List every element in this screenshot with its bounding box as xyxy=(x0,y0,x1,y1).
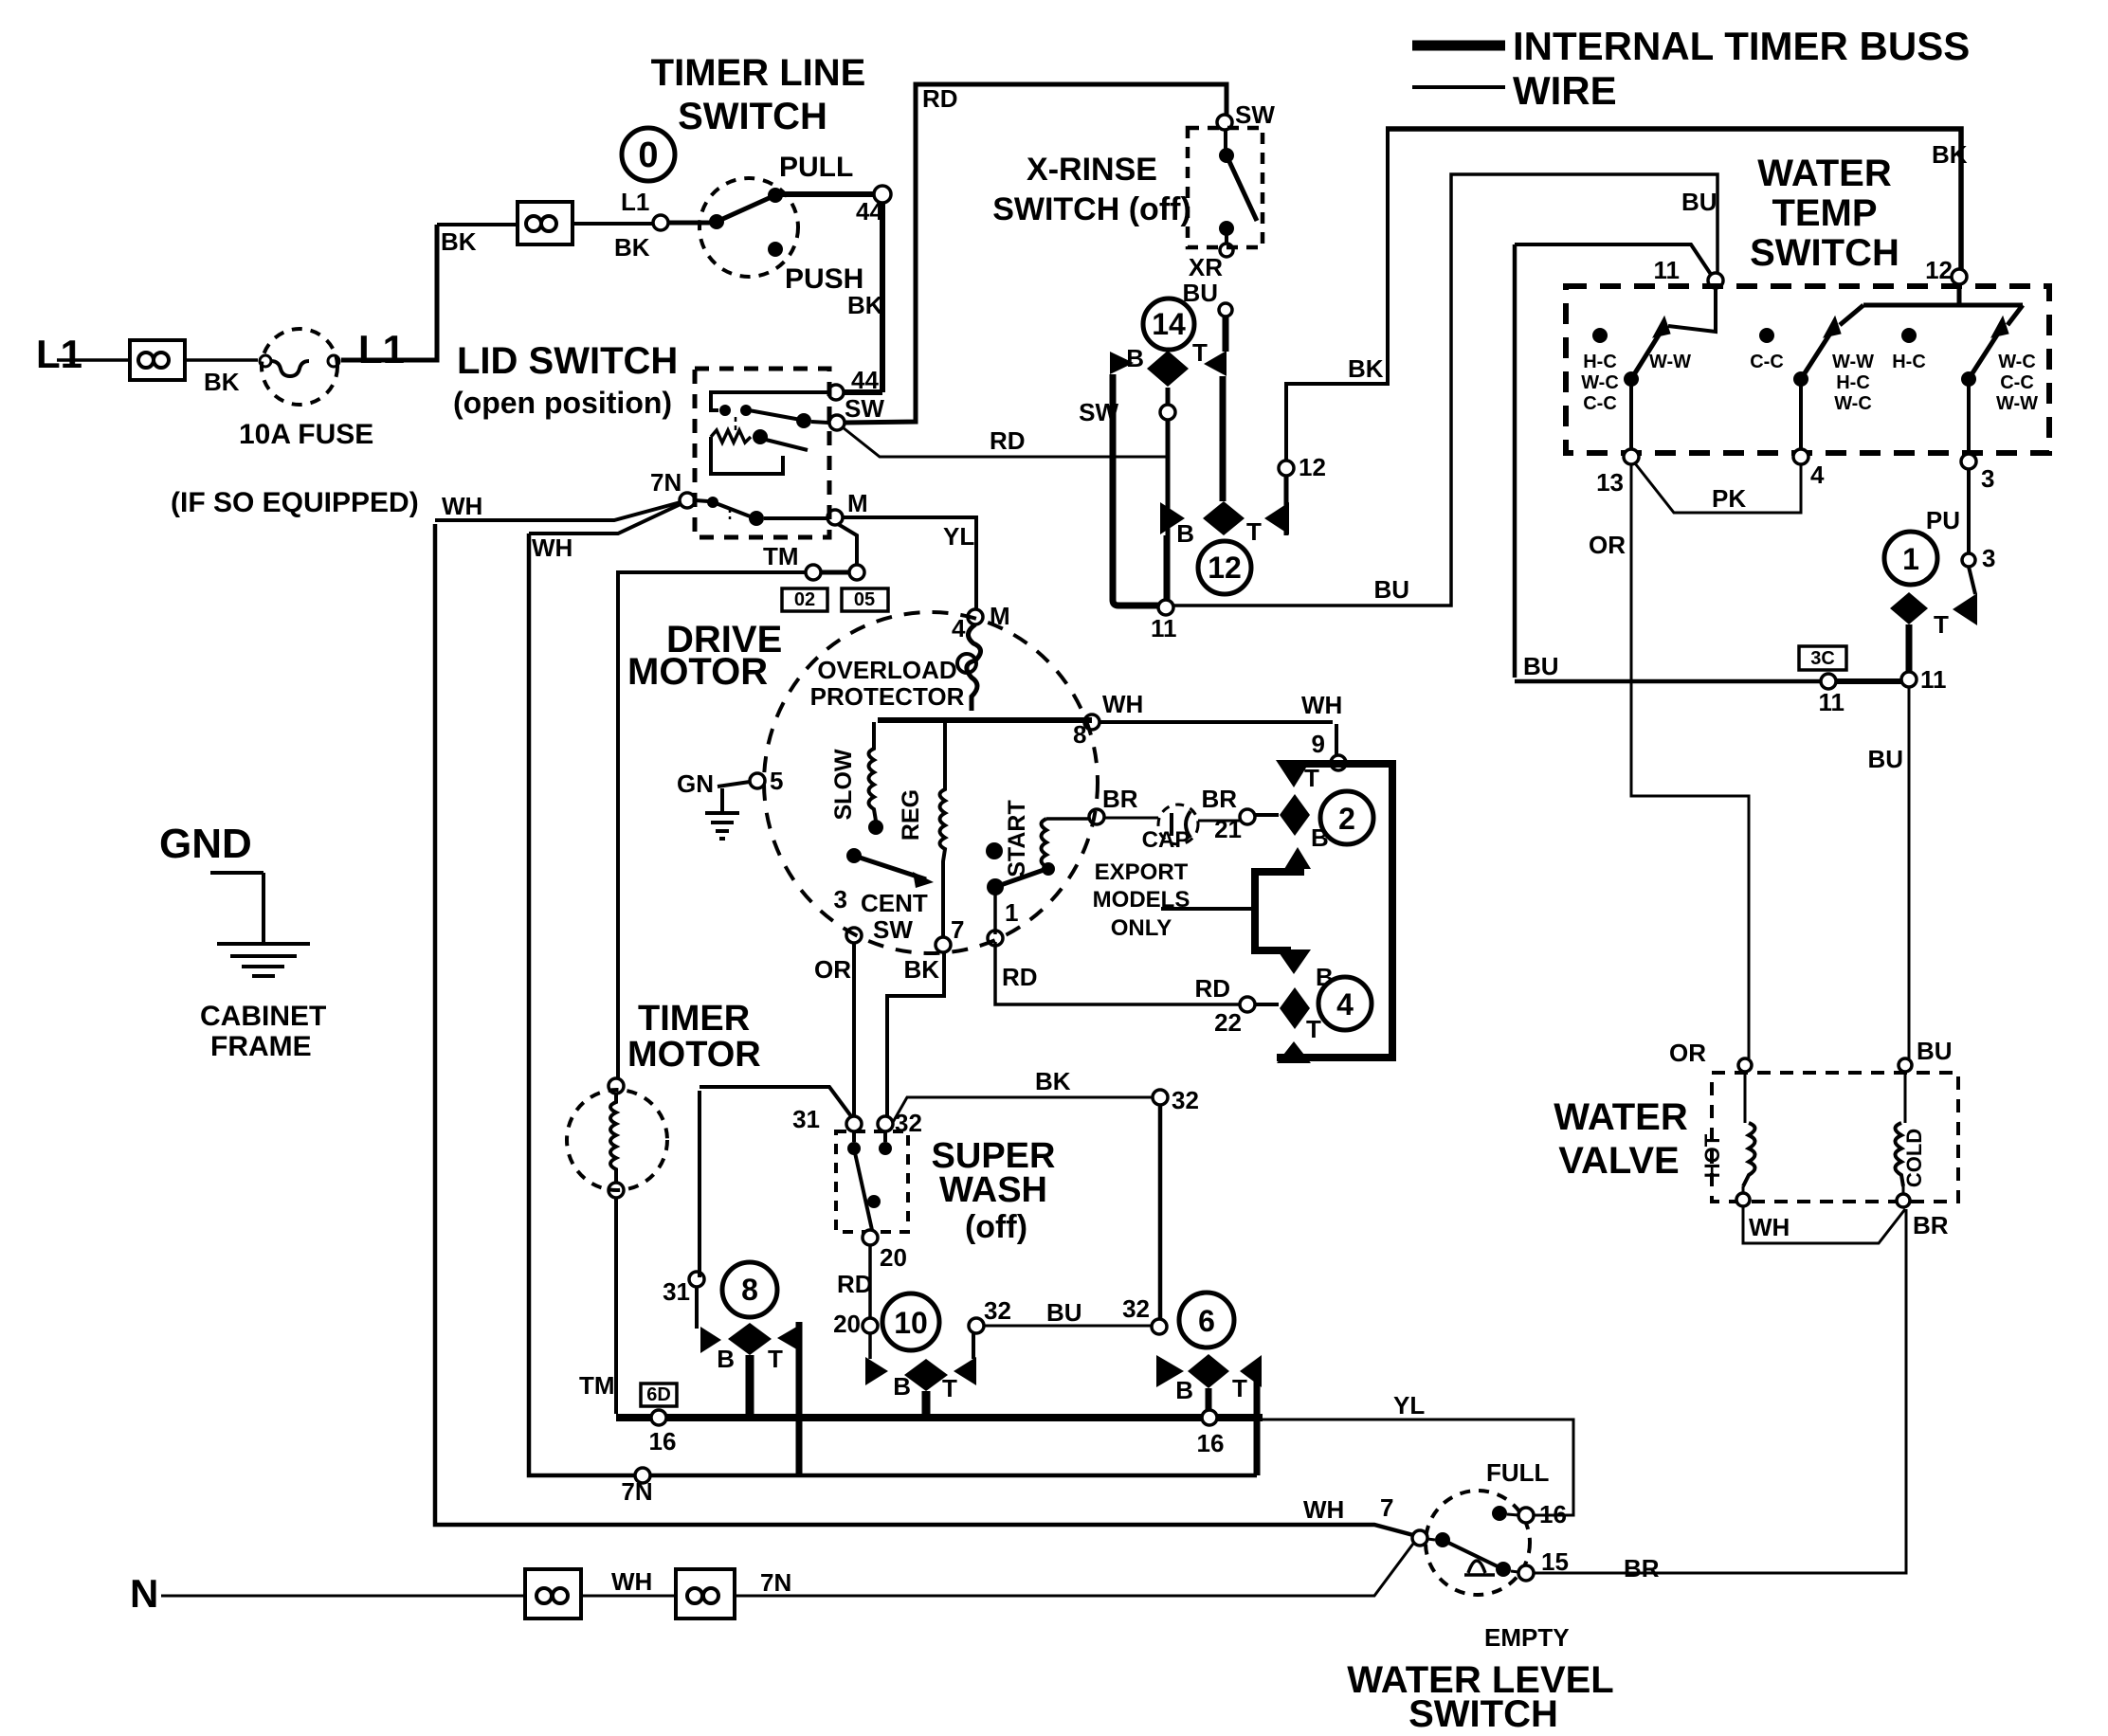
svg-text:(open position): (open position) xyxy=(453,386,672,420)
svg-text:RD: RD xyxy=(1002,963,1038,991)
svg-text:SW: SW xyxy=(873,915,913,944)
svg-text:C-C: C-C xyxy=(1583,393,1617,414)
svg-text:WH: WH xyxy=(1301,691,1342,719)
svg-text:YL: YL xyxy=(1393,1391,1425,1420)
svg-text:TIMER LINE: TIMER LINE xyxy=(651,52,866,94)
svg-text:12: 12 xyxy=(1208,551,1242,585)
svg-text:7N: 7N xyxy=(621,1477,652,1506)
svg-text:4: 4 xyxy=(952,614,966,642)
svg-text:WH: WH xyxy=(1749,1213,1790,1241)
svg-text:YL: YL xyxy=(943,522,974,551)
svg-text:14: 14 xyxy=(1152,307,1186,341)
svg-text:B: B xyxy=(893,1372,911,1401)
svg-text:BR: BR xyxy=(1201,785,1237,813)
svg-text:20: 20 xyxy=(880,1243,907,1272)
svg-text:SWITCH: SWITCH xyxy=(1750,232,1899,274)
svg-text:0: 0 xyxy=(638,136,658,175)
svg-text:XR: XR xyxy=(1189,253,1223,281)
svg-text:W-C: W-C xyxy=(1581,372,1619,393)
svg-text:1: 1 xyxy=(1005,898,1018,927)
svg-text:W-W: W-W xyxy=(1832,352,1874,372)
svg-text:3: 3 xyxy=(1981,464,1994,493)
svg-text:B: B xyxy=(1316,963,1334,991)
svg-text:BK: BK xyxy=(903,955,939,984)
svg-text:BK: BK xyxy=(204,368,240,396)
svg-text:EMPTY: EMPTY xyxy=(1484,1623,1570,1652)
svg-text:2: 2 xyxy=(1338,802,1355,836)
svg-text:L1: L1 xyxy=(36,332,82,376)
svg-text:MODELS: MODELS xyxy=(1093,887,1190,913)
svg-text:1: 1 xyxy=(1902,542,1919,576)
svg-text:START: START xyxy=(1004,800,1030,877)
svg-text:BU: BU xyxy=(1681,188,1717,216)
svg-text:T: T xyxy=(1232,1374,1247,1402)
svg-text:RD: RD xyxy=(922,84,958,113)
svg-text:31: 31 xyxy=(663,1277,690,1306)
svg-text:L1: L1 xyxy=(621,188,649,216)
svg-text:10: 10 xyxy=(894,1306,928,1340)
svg-text:CENT: CENT xyxy=(861,889,928,917)
svg-text:X-RINSE: X-RINSE xyxy=(1027,152,1157,188)
svg-text:3C: 3C xyxy=(1810,648,1835,669)
svg-text:C-C: C-C xyxy=(1750,352,1784,372)
svg-text:BK: BK xyxy=(847,291,883,319)
svg-text:CAP: CAP xyxy=(1142,827,1190,853)
svg-text:M: M xyxy=(847,489,868,517)
svg-text:16: 16 xyxy=(1197,1429,1225,1457)
svg-text:W-C: W-C xyxy=(1998,352,2036,372)
svg-text:M: M xyxy=(990,602,1010,630)
svg-text:SW: SW xyxy=(845,394,884,423)
svg-text:6: 6 xyxy=(1198,1304,1215,1338)
svg-text:T: T xyxy=(1192,338,1208,367)
svg-text:WH: WH xyxy=(532,533,572,562)
svg-text:11: 11 xyxy=(1819,688,1845,716)
svg-text:4: 4 xyxy=(1810,461,1825,489)
svg-text:BK: BK xyxy=(614,233,650,262)
svg-text:5: 5 xyxy=(770,767,783,795)
svg-text:FULL: FULL xyxy=(1486,1458,1550,1487)
svg-text:OR: OR xyxy=(814,955,851,984)
svg-text:T: T xyxy=(1304,764,1319,792)
svg-text:8: 8 xyxy=(741,1273,758,1307)
svg-text:7N: 7N xyxy=(760,1568,791,1597)
svg-text:12: 12 xyxy=(1925,256,1953,284)
svg-text:OR: OR xyxy=(1589,531,1626,559)
svg-text:FRAME: FRAME xyxy=(210,1031,312,1062)
svg-text:BU: BU xyxy=(1373,575,1409,604)
svg-text:VALVE: VALVE xyxy=(1558,1140,1679,1182)
svg-text:REG: REG xyxy=(898,789,924,841)
svg-text:44: 44 xyxy=(856,197,883,226)
svg-text:PU: PU xyxy=(1926,506,1960,534)
svg-text:7: 7 xyxy=(951,915,964,944)
svg-text:TM: TM xyxy=(763,542,799,570)
svg-text:B: B xyxy=(1175,1376,1193,1404)
svg-text:BR: BR xyxy=(1913,1211,1949,1239)
svg-text:32: 32 xyxy=(984,1296,1011,1325)
svg-text:9: 9 xyxy=(1312,730,1325,758)
svg-text:HOT: HOT xyxy=(1700,1133,1724,1178)
svg-text:T: T xyxy=(768,1345,783,1373)
svg-text:B: B xyxy=(717,1345,735,1373)
svg-text:15: 15 xyxy=(1541,1547,1569,1576)
svg-text:WH: WH xyxy=(1102,690,1143,718)
svg-text:(off): (off) xyxy=(965,1209,1027,1245)
svg-text:W-W: W-W xyxy=(1996,393,2038,414)
svg-text:OR: OR xyxy=(1669,1039,1706,1067)
svg-text:WASH: WASH xyxy=(939,1170,1047,1210)
svg-text:BU: BU xyxy=(1523,652,1559,680)
svg-text:02: 02 xyxy=(794,589,815,610)
svg-text:W-C: W-C xyxy=(1834,393,1872,414)
svg-text:BU: BU xyxy=(1046,1298,1082,1327)
svg-text:31: 31 xyxy=(792,1105,820,1133)
svg-text:H-C: H-C xyxy=(1583,352,1617,372)
svg-text:16: 16 xyxy=(649,1427,677,1456)
svg-text:INTERNAL TIMER BUSS: INTERNAL TIMER BUSS xyxy=(1513,24,1970,68)
svg-text:TM: TM xyxy=(579,1371,615,1400)
svg-text:05: 05 xyxy=(854,589,875,610)
svg-text:WH: WH xyxy=(442,492,482,520)
svg-text:T: T xyxy=(1306,1015,1321,1043)
svg-text:16: 16 xyxy=(1539,1500,1567,1528)
svg-text:C-C: C-C xyxy=(2000,372,2034,393)
svg-text:RD: RD xyxy=(1194,974,1230,1003)
svg-text:BK: BK xyxy=(1035,1067,1071,1095)
svg-text:12: 12 xyxy=(1299,453,1326,481)
svg-text:10A FUSE: 10A FUSE xyxy=(239,419,373,450)
svg-text:32: 32 xyxy=(1172,1086,1199,1114)
svg-text:SLOW: SLOW xyxy=(830,749,857,820)
svg-text:BK: BK xyxy=(1348,354,1384,383)
svg-text:WATER: WATER xyxy=(1757,153,1892,194)
svg-text:GND: GND xyxy=(159,821,252,867)
svg-text:SWITCH: SWITCH xyxy=(1408,1693,1558,1735)
svg-text:TIMER: TIMER xyxy=(638,999,750,1039)
svg-text:22: 22 xyxy=(1214,1008,1242,1037)
svg-text:EXPORT: EXPORT xyxy=(1095,859,1189,885)
svg-text:ONLY: ONLY xyxy=(1111,915,1172,941)
svg-text:21: 21 xyxy=(1214,815,1242,843)
svg-text:WIRE: WIRE xyxy=(1513,68,1617,113)
svg-text:6D: 6D xyxy=(646,1384,671,1405)
svg-text:11: 11 xyxy=(1654,256,1681,284)
svg-text:LID SWITCH: LID SWITCH xyxy=(457,340,678,382)
svg-text:H-C: H-C xyxy=(1892,352,1926,372)
svg-text:BU: BU xyxy=(1182,279,1218,307)
svg-text:WATER: WATER xyxy=(1554,1096,1688,1138)
svg-text:32: 32 xyxy=(895,1109,922,1137)
svg-text:8: 8 xyxy=(1073,720,1086,749)
svg-text:COLD: COLD xyxy=(1902,1129,1926,1187)
svg-text:OVERLOAD: OVERLOAD xyxy=(817,656,956,684)
svg-text:32: 32 xyxy=(1122,1294,1150,1323)
svg-text:W-W: W-W xyxy=(1649,352,1691,372)
svg-text:20: 20 xyxy=(833,1310,861,1338)
svg-text:BU: BU xyxy=(1917,1037,1953,1065)
svg-text:B: B xyxy=(1126,344,1144,372)
svg-text:7N: 7N xyxy=(650,468,681,497)
svg-text:44: 44 xyxy=(851,366,879,394)
svg-text:11: 11 xyxy=(1151,614,1177,642)
svg-text:SWITCH (off): SWITCH (off) xyxy=(992,191,1191,227)
svg-text:RD: RD xyxy=(837,1270,873,1298)
svg-text:7: 7 xyxy=(1380,1493,1393,1522)
svg-text:T: T xyxy=(942,1374,957,1402)
svg-text:H-C: H-C xyxy=(1836,372,1870,393)
svg-text:GN: GN xyxy=(677,769,714,798)
svg-text:11: 11 xyxy=(1920,665,1947,694)
svg-text:MOTOR: MOTOR xyxy=(627,651,768,693)
svg-text:BR: BR xyxy=(1624,1554,1660,1582)
svg-text:B: B xyxy=(1176,519,1194,548)
svg-text:CABINET: CABINET xyxy=(200,1001,326,1032)
svg-text:3: 3 xyxy=(1982,544,1995,572)
svg-text:SW: SW xyxy=(1079,398,1118,426)
svg-text:(IF SO EQUIPPED): (IF SO EQUIPPED) xyxy=(171,487,419,518)
svg-text:PULL: PULL xyxy=(779,152,853,183)
svg-text:L1: L1 xyxy=(358,327,405,371)
svg-text:13: 13 xyxy=(1596,468,1624,497)
svg-text:WH: WH xyxy=(611,1567,652,1596)
svg-text:BR: BR xyxy=(1102,785,1138,813)
svg-text:TEMP: TEMP xyxy=(1772,192,1877,234)
svg-text:SW: SW xyxy=(1235,100,1275,129)
svg-text:BU: BU xyxy=(1867,745,1903,773)
svg-text:RD: RD xyxy=(990,426,1026,455)
svg-text:T: T xyxy=(1246,517,1262,546)
svg-text:SWITCH: SWITCH xyxy=(678,96,827,137)
svg-text:MOTOR: MOTOR xyxy=(627,1035,761,1075)
svg-text:B: B xyxy=(1311,823,1329,852)
svg-text:3: 3 xyxy=(834,885,847,913)
svg-text:T: T xyxy=(1934,610,1949,639)
svg-text:BK: BK xyxy=(441,227,477,256)
svg-text:4: 4 xyxy=(1336,987,1354,1022)
svg-text:PROTECTOR: PROTECTOR xyxy=(810,682,965,711)
svg-text:N: N xyxy=(130,1571,158,1616)
svg-text:PK: PK xyxy=(1712,484,1746,513)
svg-text:BK: BK xyxy=(1932,140,1968,169)
svg-text:WH: WH xyxy=(1303,1495,1344,1524)
